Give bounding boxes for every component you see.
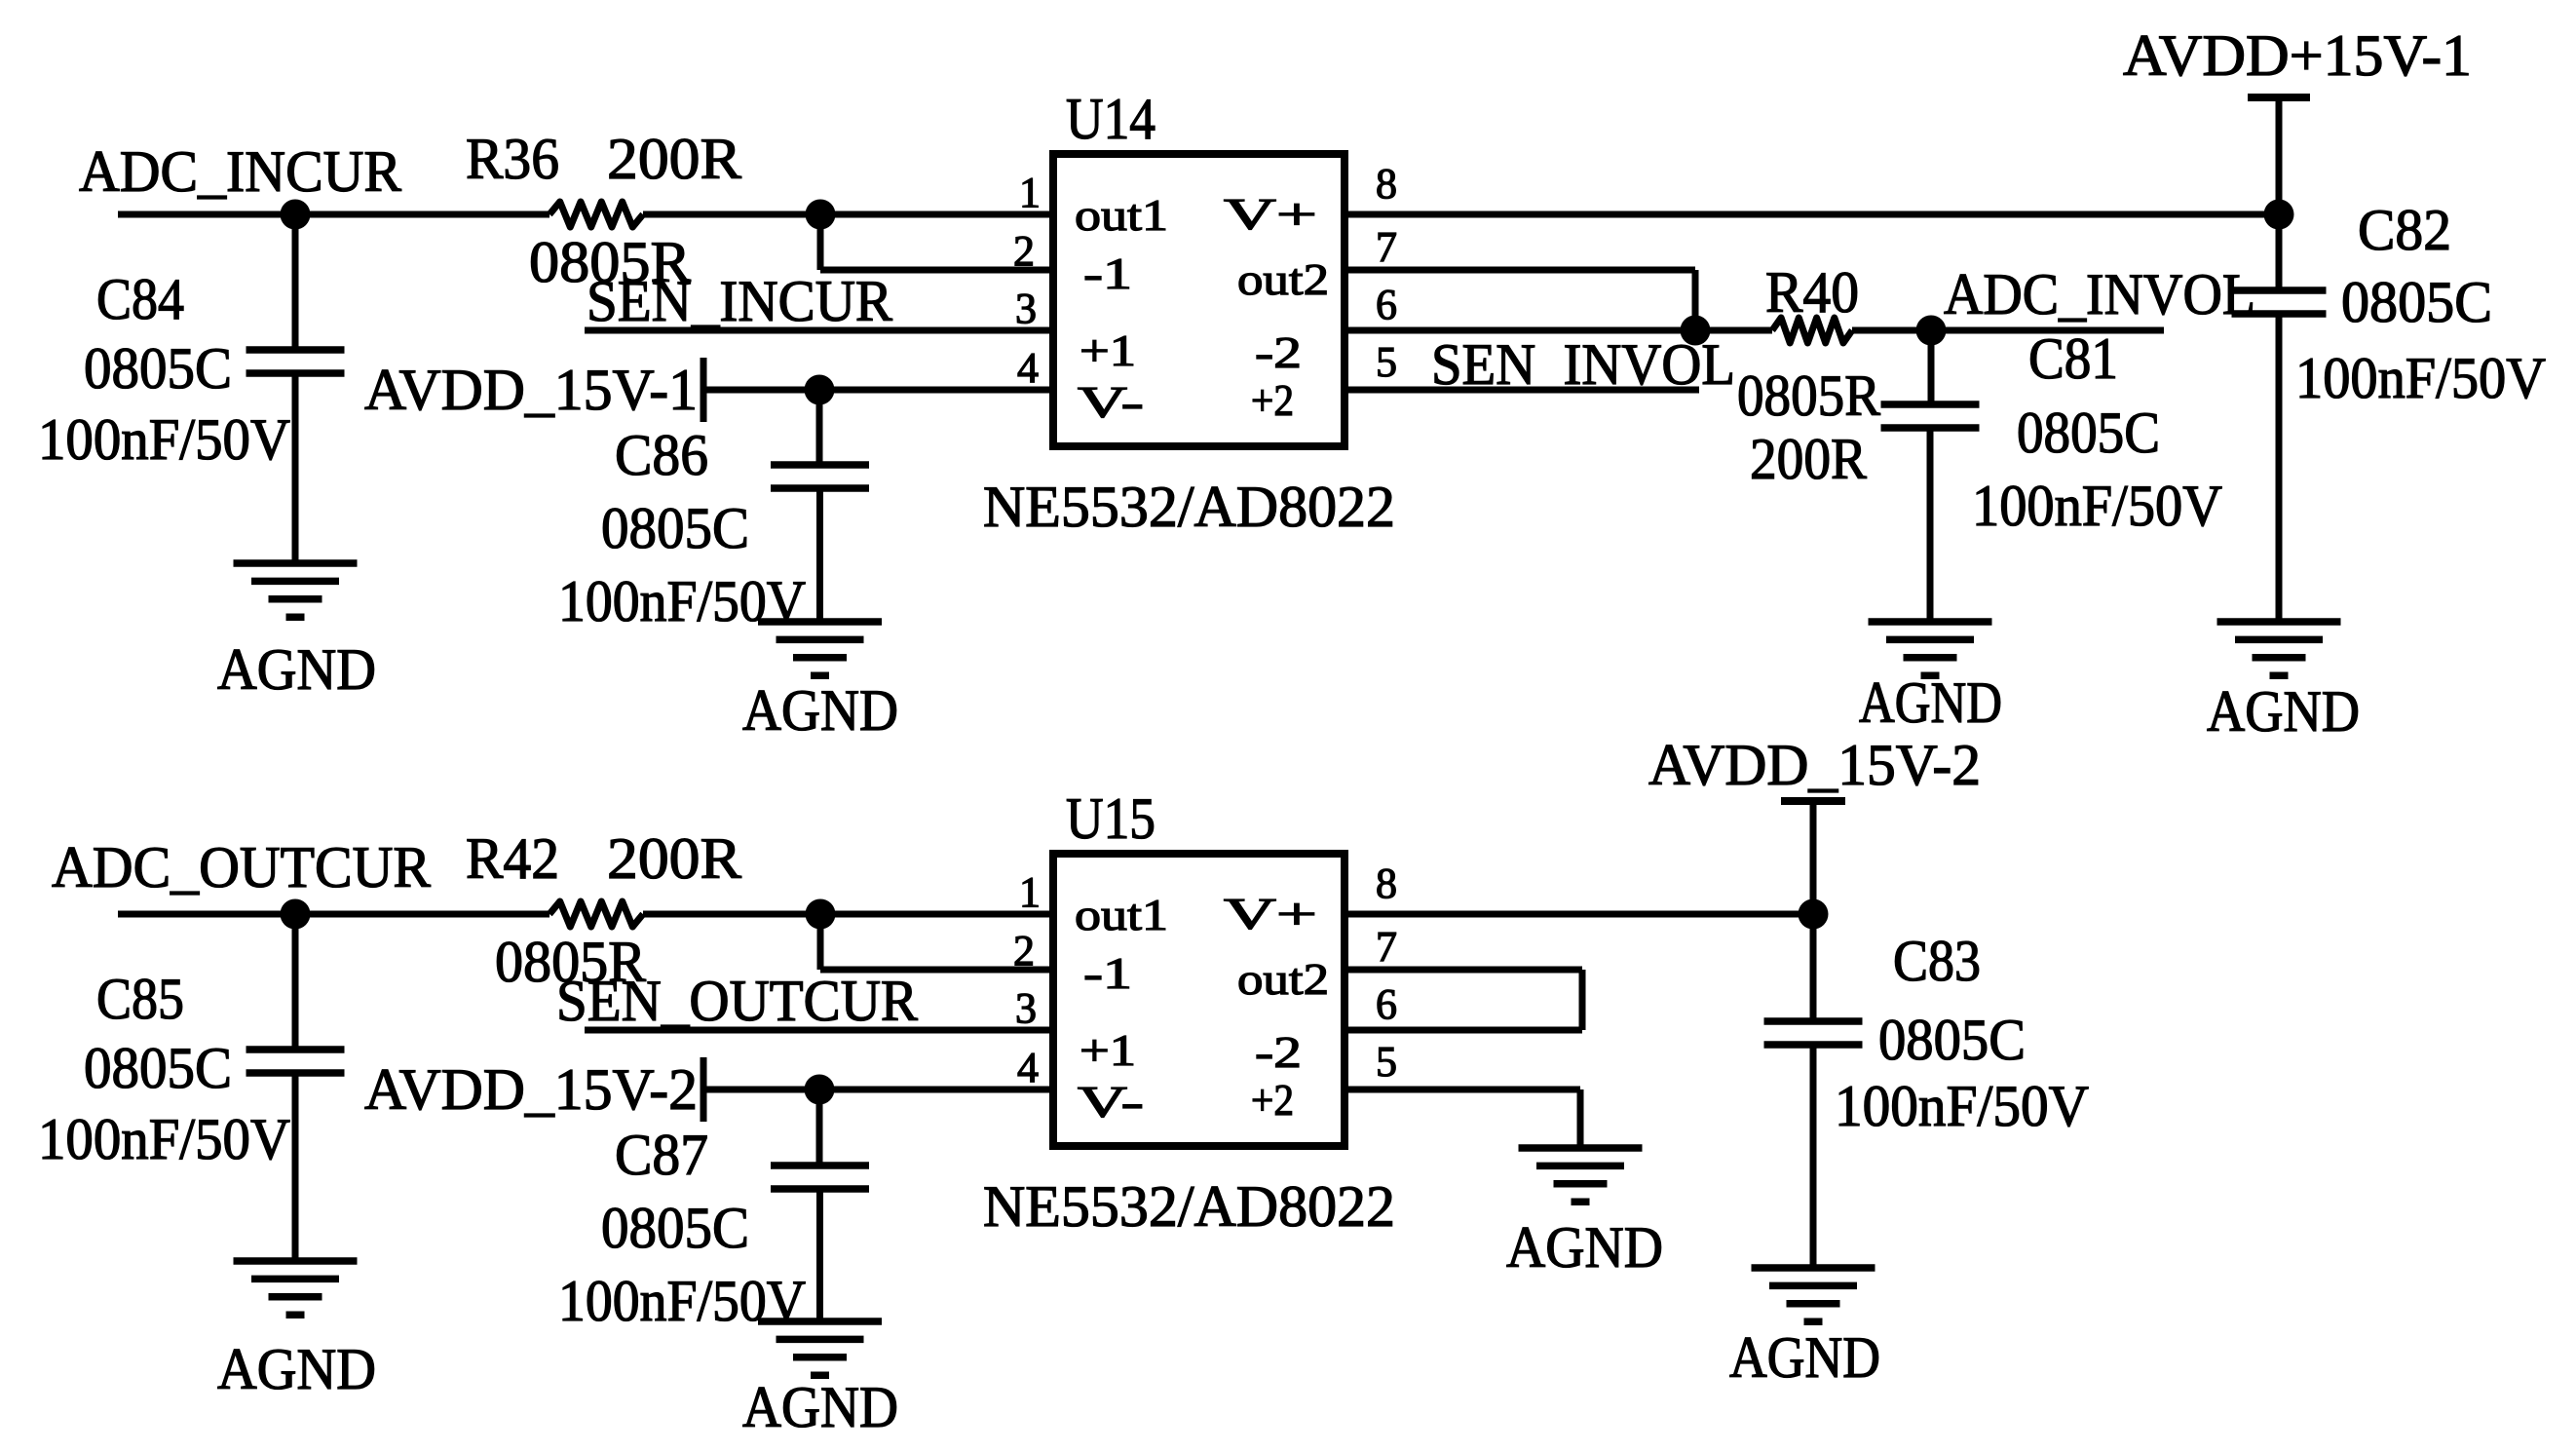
svg-text:ADC_INCUR: ADC_INCUR bbox=[79, 139, 401, 204]
power stem AVDD_15V-2 bbox=[1810, 801, 1817, 914]
svg-text:0805R: 0805R bbox=[1737, 363, 1880, 428]
power symbol AVDD+15V-1 (T bar) bbox=[2248, 94, 2310, 101]
power symbol AVDD_15V-1 (bar) bbox=[701, 358, 707, 422]
svg-text:C87: C87 bbox=[615, 1123, 708, 1187]
wire R40 to ADC_INVOL bbox=[1852, 327, 2164, 334]
svg-text:R40: R40 bbox=[1765, 260, 1859, 325]
svg-text:6: 6 bbox=[1376, 281, 1397, 328]
wire R36 to U14 pin 1 bbox=[643, 211, 1053, 218]
wire U14 pin 7 (out2) right bbox=[1345, 267, 1695, 274]
wire C87 to ground bbox=[816, 1189, 823, 1321]
svg-text:out2: out2 bbox=[1237, 954, 1329, 1004]
wire junction down to C82 bbox=[2276, 214, 2283, 290]
svg-text:2: 2 bbox=[1013, 927, 1035, 974]
svg-text:C83: C83 bbox=[1893, 929, 1981, 993]
wire junction down to C81 bbox=[1928, 330, 1935, 404]
svg-text:V-: V- bbox=[1078, 1077, 1144, 1127]
wire ADC_OUTCUR node down to C85 bbox=[292, 914, 299, 1050]
capacitor C87 bbox=[771, 1162, 869, 1169]
svg-text:0805C: 0805C bbox=[2341, 270, 2492, 334]
svg-text:4: 4 bbox=[1017, 1044, 1039, 1091]
svg-text:100nF/50V: 100nF/50V bbox=[38, 1107, 290, 1171]
ground AGND (C84) bbox=[234, 559, 358, 567]
wire ADC_INCUR net bbox=[118, 211, 549, 218]
svg-text:0805C: 0805C bbox=[601, 496, 749, 560]
svg-text:8: 8 bbox=[1376, 860, 1397, 907]
svg-text:200R: 200R bbox=[1750, 427, 1867, 491]
op-amp U15 bbox=[1053, 854, 1345, 1146]
svg-text:100nF/50V: 100nF/50V bbox=[38, 407, 290, 472]
capacitor C83 bbox=[1764, 1017, 1863, 1025]
junction V+/C83 bbox=[1799, 899, 1829, 930]
svg-text:AGND: AGND bbox=[1729, 1325, 1880, 1390]
svg-text:out1: out1 bbox=[1075, 890, 1168, 939]
wire C82 to ground bbox=[2276, 314, 2283, 622]
op-amp U14 bbox=[1053, 154, 1345, 446]
svg-text:3: 3 bbox=[1015, 984, 1037, 1032]
svg-text:+2: +2 bbox=[1251, 375, 1294, 425]
wire SEN_INCUR to U14 pin 3 bbox=[585, 327, 1053, 334]
svg-text:0805C: 0805C bbox=[1878, 1008, 2026, 1072]
wire to U14 pin 2 bbox=[820, 267, 1053, 274]
svg-text:5: 5 bbox=[1376, 338, 1397, 386]
wire U14 pin 6 to R40 bbox=[1345, 327, 1772, 334]
svg-text:out2: out2 bbox=[1237, 254, 1329, 304]
junction pin6/pin7 bbox=[1681, 316, 1711, 346]
svg-text:AGND: AGND bbox=[217, 1337, 376, 1401]
svg-text:AGND: AGND bbox=[742, 678, 898, 743]
wire to U15 pin 2 bbox=[820, 967, 1053, 974]
svg-text:AVDD+15V-1: AVDD+15V-1 bbox=[2123, 23, 2472, 88]
ground AGND (C82) bbox=[2217, 618, 2341, 626]
ground AGND (C87) bbox=[758, 1318, 882, 1325]
svg-text:C82: C82 bbox=[2358, 198, 2451, 262]
svg-text:4: 4 bbox=[1017, 344, 1039, 392]
junction ADC_OUTCUR/C85 bbox=[281, 899, 311, 930]
wire U15 pin 7 (out2) right bbox=[1345, 967, 1582, 974]
ground AGND (C86) bbox=[758, 618, 882, 626]
wire ADC_OUTCUR net bbox=[118, 911, 549, 918]
wire U15 pin 5 (+2) right bbox=[1345, 1087, 1580, 1093]
svg-text:U15: U15 bbox=[1066, 786, 1155, 851]
wire back to U15 pin 6 bbox=[1345, 1027, 1582, 1034]
svg-text:3: 3 bbox=[1015, 285, 1037, 332]
svg-text:C81: C81 bbox=[2028, 326, 2118, 391]
wire C81 to ground bbox=[1927, 428, 1934, 622]
power stem AVDD+15V-1 bbox=[2276, 97, 2283, 214]
svg-text:out1: out1 bbox=[1075, 190, 1168, 240]
svg-text:1: 1 bbox=[1019, 868, 1041, 916]
svg-text:-1: -1 bbox=[1083, 948, 1132, 998]
svg-text:-2: -2 bbox=[1255, 1027, 1302, 1077]
wire C86 to ground bbox=[816, 488, 823, 622]
wire junction down to pin2 row (U15) bbox=[817, 914, 824, 970]
capacitor C86 bbox=[771, 461, 869, 469]
resistor R36 bbox=[549, 202, 643, 227]
wire AVDD_15V-2 to U15 pin 4 bbox=[703, 1087, 1053, 1093]
svg-text:0805C: 0805C bbox=[601, 1196, 749, 1260]
svg-text:AGND: AGND bbox=[1506, 1215, 1663, 1280]
junction pin1/pin2 branch bbox=[806, 200, 836, 230]
junction ADC_INCUR/C84 bbox=[281, 200, 311, 230]
capacitor C81 bbox=[1881, 401, 1980, 408]
svg-text:SEN_OUTCUR: SEN_OUTCUR bbox=[556, 969, 918, 1033]
capacitor C84 bbox=[246, 346, 345, 354]
wire ADC_INCUR node down to C84 bbox=[292, 214, 299, 350]
svg-text:AVDD_15V-1: AVDD_15V-1 bbox=[364, 358, 698, 422]
svg-text:NE5532/AD8022: NE5532/AD8022 bbox=[983, 1174, 1395, 1239]
resistor R42 bbox=[549, 901, 643, 927]
svg-text:U14: U14 bbox=[1066, 87, 1155, 151]
wire pin 7 down to pin6 net bbox=[1692, 270, 1699, 330]
svg-text:AGND: AGND bbox=[217, 637, 376, 702]
wire C84 to ground bbox=[292, 373, 299, 563]
svg-text:+1: +1 bbox=[1080, 325, 1136, 375]
svg-text:ADC_INVOL: ADC_INVOL bbox=[1944, 262, 2255, 326]
wire pin4 junction down to C86 bbox=[816, 390, 823, 465]
svg-text:100nF/50V: 100nF/50V bbox=[1835, 1074, 2089, 1138]
svg-text:C84: C84 bbox=[96, 267, 184, 331]
svg-text:6: 6 bbox=[1376, 980, 1397, 1028]
svg-text:V+: V+ bbox=[1224, 189, 1317, 239]
wire U14 pin 5 SEN_INVOL bbox=[1345, 387, 1699, 394]
capacitor C85 bbox=[246, 1046, 345, 1053]
wire U15 pin 8 (V+) to power node bbox=[1345, 911, 1813, 918]
wire pin 5 down to ground bbox=[1577, 1089, 1584, 1148]
junction pin1/pin2 branch (U15) bbox=[806, 899, 836, 930]
svg-text:C85: C85 bbox=[96, 967, 184, 1031]
svg-text:100nF/50V: 100nF/50V bbox=[558, 569, 806, 633]
wire C83 to ground bbox=[1810, 1045, 1817, 1268]
svg-text:+2: +2 bbox=[1251, 1075, 1294, 1125]
svg-text:+1: +1 bbox=[1080, 1025, 1136, 1075]
junction ADC_INVOL/C81 bbox=[1916, 316, 1947, 346]
svg-text:R42: R42 bbox=[466, 826, 559, 891]
svg-text:0805C: 0805C bbox=[84, 336, 232, 401]
power symbol AVDD_15V-2 (T bar) bbox=[1781, 797, 1845, 805]
capacitor C82 bbox=[2232, 287, 2327, 294]
junction V+/C82 bbox=[2264, 200, 2294, 230]
svg-text:0805C: 0805C bbox=[2017, 401, 2160, 465]
junction pin4/C87 bbox=[805, 1075, 835, 1105]
svg-text:AVDD_15V-2: AVDD_15V-2 bbox=[364, 1057, 698, 1122]
svg-text:AGND: AGND bbox=[2207, 679, 2360, 744]
wire R42 to U15 pin 1 bbox=[643, 911, 1053, 918]
ground AGND (C85) bbox=[234, 1257, 358, 1265]
junction pin4/C86 bbox=[805, 375, 835, 405]
svg-text:NE5532/AD8022: NE5532/AD8022 bbox=[983, 475, 1395, 539]
wire junction down to pin2 row bbox=[817, 214, 824, 270]
wire pin4 junction down to C87 bbox=[816, 1089, 823, 1165]
ground AGND (U15 pin 5) bbox=[1519, 1144, 1643, 1152]
svg-text:100nF/50V: 100nF/50V bbox=[558, 1269, 806, 1333]
svg-text:5: 5 bbox=[1376, 1038, 1397, 1086]
svg-text:-2: -2 bbox=[1255, 327, 1302, 377]
wire SEN_OUTCUR to U15 pin 3 bbox=[585, 1027, 1053, 1034]
ground AGND (C83) bbox=[1752, 1264, 1875, 1272]
svg-text:2: 2 bbox=[1013, 227, 1035, 275]
svg-text:AGND: AGND bbox=[742, 1375, 898, 1439]
wire U14 pin 8 (V+) to power node bbox=[1345, 211, 2279, 218]
wire AVDD_15V-1 to U14 pin 4 bbox=[703, 387, 1053, 394]
svg-text:0805C: 0805C bbox=[84, 1036, 232, 1100]
wire pin 7 down to pin 6 row bbox=[1579, 970, 1586, 1030]
ground AGND (C81) bbox=[1869, 618, 1992, 626]
wire C85 to ground bbox=[292, 1073, 299, 1261]
svg-text:7: 7 bbox=[1376, 223, 1397, 271]
svg-text:200R: 200R bbox=[607, 826, 741, 891]
svg-text:200R: 200R bbox=[607, 127, 741, 191]
resistor R40 bbox=[1772, 318, 1852, 343]
svg-text:1: 1 bbox=[1019, 169, 1041, 216]
svg-text:100nF/50V: 100nF/50V bbox=[1972, 474, 2222, 538]
svg-text:AGND: AGND bbox=[1859, 670, 2002, 735]
svg-text:SEN_INCUR: SEN_INCUR bbox=[587, 269, 892, 333]
svg-text:V-: V- bbox=[1078, 377, 1144, 427]
wire junction down to C83 bbox=[1810, 914, 1817, 1021]
power symbol AVDD_15V-2 (bar) bbox=[701, 1057, 707, 1122]
svg-text:100nF/50V: 100nF/50V bbox=[2295, 346, 2546, 410]
svg-text:V+: V+ bbox=[1224, 889, 1317, 938]
svg-text:8: 8 bbox=[1376, 160, 1397, 208]
svg-text:R36: R36 bbox=[466, 127, 559, 191]
svg-text:C86: C86 bbox=[615, 423, 708, 487]
svg-text:ADC_OUTCUR: ADC_OUTCUR bbox=[52, 835, 431, 899]
svg-text:7: 7 bbox=[1376, 923, 1397, 971]
svg-text:AVDD_15V-2: AVDD_15V-2 bbox=[1648, 733, 1981, 797]
svg-text:-1: -1 bbox=[1083, 248, 1132, 298]
